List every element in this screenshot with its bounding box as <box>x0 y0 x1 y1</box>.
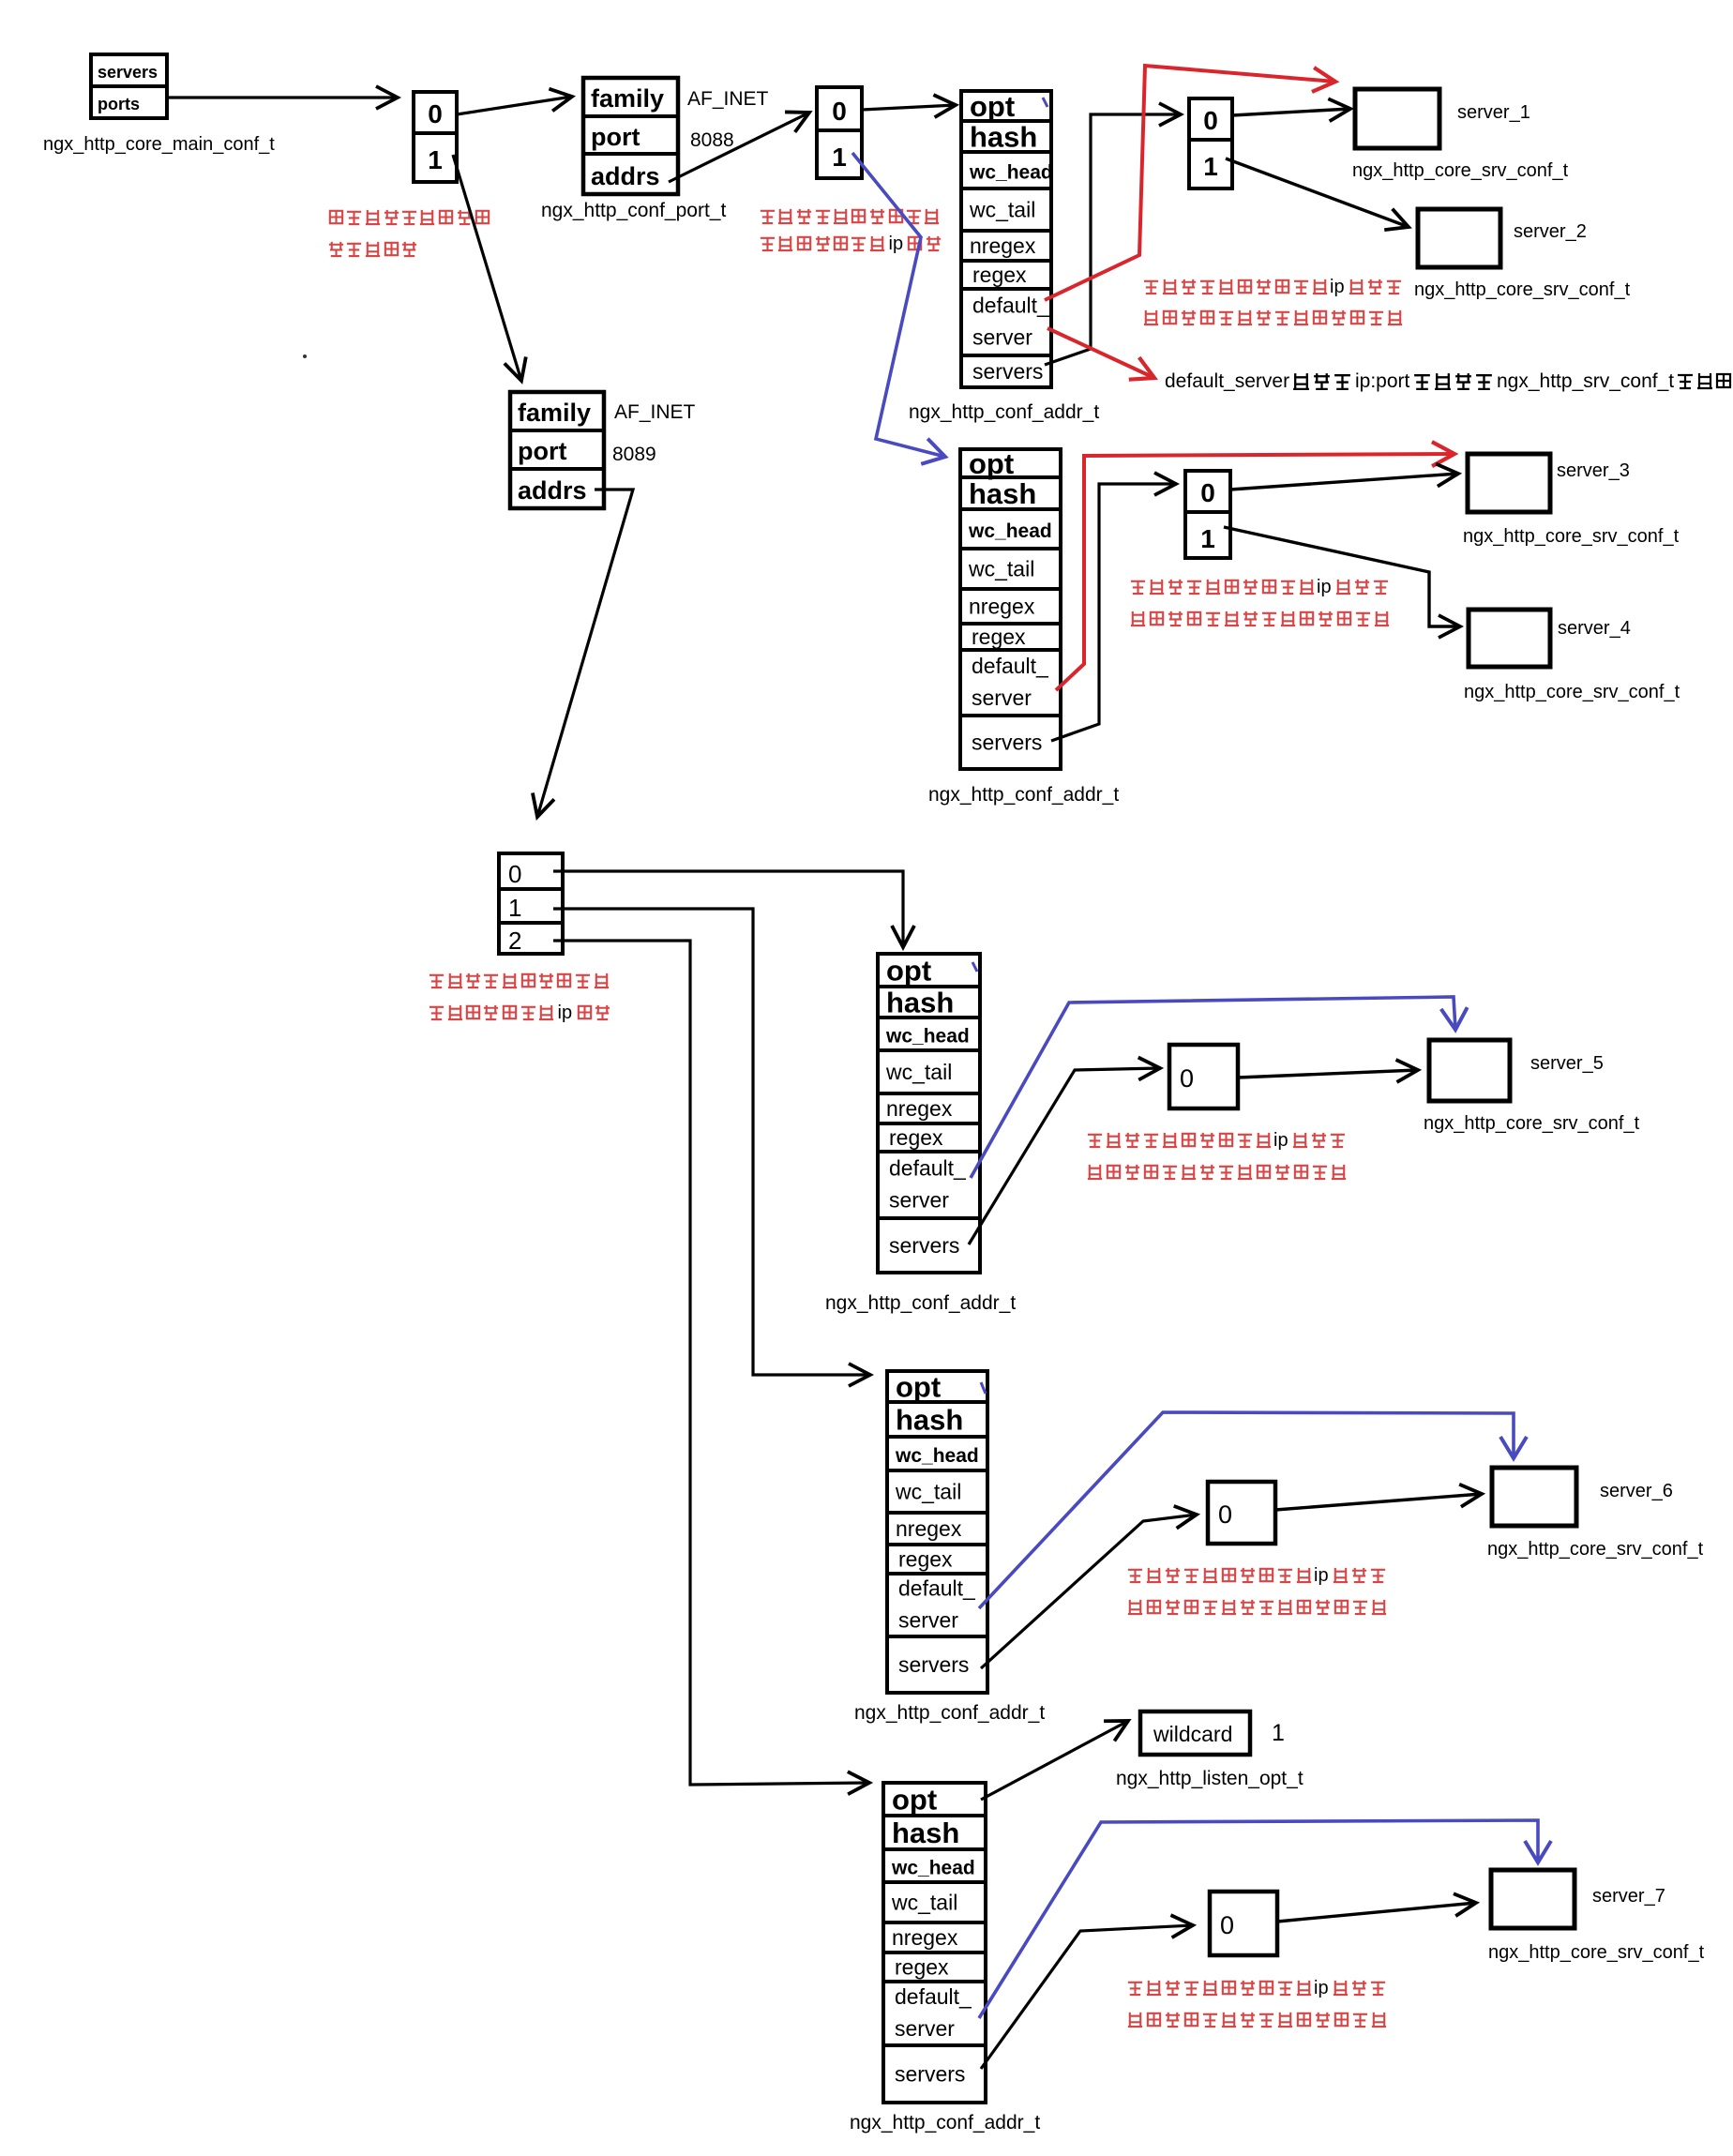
svg-text:regex: regex <box>889 1125 943 1150</box>
svg-text:hash: hash <box>970 121 1037 154</box>
svg-text:1: 1 <box>832 143 847 172</box>
svg-text:ip: ip <box>1317 577 1332 597</box>
svg-text:servers: servers <box>889 1233 959 1258</box>
array box servers[0] (server_5) <box>1169 1045 1238 1108</box>
svg-text:ngx_http_core_srv_conf_t: ngx_http_core_srv_conf_t <box>1414 279 1631 300</box>
array box servers[0..1] (server_1/server_2) <box>1189 98 1232 188</box>
wire arrow: addrs[2] -> addr-5 box <box>553 941 869 1785</box>
stray blue tick on opt row <box>1043 98 1047 107</box>
svg-text:wc_tail: wc_tail <box>968 557 1034 581</box>
wire arrow: servers(addr-2) -> servers array <box>1051 484 1176 741</box>
svg-text:ngx_http_conf_addr_t: ngx_http_conf_addr_t <box>854 1702 1045 1724</box>
svg-text:ngx_http_srv_conf_t: ngx_http_srv_conf_t <box>1497 370 1674 392</box>
wire arrow: servers(addr-4) -> single-element array <box>981 1515 1197 1668</box>
svg-text:2: 2 <box>508 927 521 955</box>
svg-text:family: family <box>518 399 591 427</box>
blue wire arrow: default_server(addr-3) -> server_5 <box>971 997 1455 1178</box>
box server_3 (ngx_http_core_srv_conf_t) <box>1463 454 1680 547</box>
wire arrow: servers[0] -> server_1 <box>1232 109 1350 115</box>
svg-text:server_4: server_4 <box>1558 618 1631 639</box>
svg-text:default_: default_ <box>972 294 1050 318</box>
svg-text:server_3: server_3 <box>1557 460 1630 481</box>
box server_5 (ngx_http_core_srv_conf_t) <box>1424 1040 1640 1134</box>
svg-text:8088: 8088 <box>690 129 734 151</box>
svg-text:ip: ip <box>1273 1130 1288 1151</box>
wire arrow: servers[0] -> server_5 <box>1238 1070 1418 1078</box>
svg-text:ports: ports <box>98 95 140 113</box>
blue wire arrow: default_server(addr-5) -> server_7 <box>979 1820 1538 2018</box>
svg-text:ngx_http_core_srv_conf_t: ngx_http_core_srv_conf_t <box>1424 1113 1640 1134</box>
wire arrow: opt(addr-5) -> wildcard box <box>981 1721 1128 1800</box>
svg-text:server_2: server_2 <box>1514 221 1587 242</box>
wire arrow: addrs[1] -> addr-4 box <box>553 909 870 1375</box>
red note: this array stores all ip addresses of one port <box>761 209 941 254</box>
svg-text:opt: opt <box>886 955 931 988</box>
red note: same ip and port virtual hosts (addr-3) <box>1088 1130 1346 1179</box>
wire arrow: ports[1] -> ngx_http_conf_port_t (8089) <box>453 155 521 381</box>
svg-text:server: server <box>972 686 1032 710</box>
svg-text:wc_head: wc_head <box>891 1858 975 1879</box>
svg-text:0: 0 <box>1200 478 1215 507</box>
svg-text:ip: ip <box>889 234 904 254</box>
wire arrow: servers(addr-5) -> single-element array <box>981 1925 1193 2069</box>
stray blue tick on opt row (addr-3) <box>972 962 977 972</box>
red note: this array stores all ip addresses of one port (8089) <box>429 973 610 1023</box>
svg-text:addrs: addrs <box>518 476 587 505</box>
struct box addr-4 (8089/addr1) (ngx_http_conf_addr_t) <box>887 1371 987 1694</box>
svg-text:wc_tail: wc_tail <box>969 198 1035 222</box>
red wire arrow: default_server(addr-1) -> note text <box>1047 328 1154 378</box>
svg-text:ngx_http_conf_addr_t: ngx_http_conf_addr_t <box>928 784 1119 806</box>
svg-text:wc_head: wc_head <box>969 162 1053 184</box>
stray blue tick on opt row (addr-4) <box>981 1382 986 1394</box>
svg-text:server: server <box>972 325 1032 350</box>
svg-text:ip:port: ip:port <box>1355 370 1410 392</box>
svg-text:ngx_http_conf_addr_t: ngx_http_conf_addr_t <box>850 2112 1040 2133</box>
svg-text:nregex: nregex <box>892 1925 958 1950</box>
red wire arrow: default_server(addr-1) -> server_1 <box>1045 66 1335 300</box>
struct box addr-3 (8089/addr0) (ngx_http_conf_addr_t) <box>878 954 980 1273</box>
svg-text:nregex: nregex <box>896 1516 962 1541</box>
svg-text:ngx_http_conf_port_t: ngx_http_conf_port_t <box>541 200 726 221</box>
svg-text:hash: hash <box>892 1817 959 1849</box>
svg-text:wildcard: wildcard <box>1153 1722 1232 1746</box>
svg-text:8089: 8089 <box>612 444 656 465</box>
svg-text:AF_INET: AF_INET <box>614 401 696 423</box>
struct box ngx_http_core_main_conf_t (servers/ports) <box>91 54 167 118</box>
svg-text:port: port <box>591 123 640 151</box>
svg-text:AF_INET: AF_INET <box>687 88 769 110</box>
array box addrs[0..1] of port 8088 <box>817 87 862 178</box>
box server_7 (ngx_http_core_srv_conf_t) <box>1488 1870 1705 1963</box>
svg-text:wc_tail: wc_tail <box>895 1480 961 1504</box>
svg-text:default_server: default_server <box>1165 370 1289 392</box>
svg-text:nregex: nregex <box>969 595 1035 619</box>
svg-text:1: 1 <box>1203 152 1218 181</box>
svg-text:ngx_http_core_main_conf_t: ngx_http_core_main_conf_t <box>43 134 275 155</box>
box server_6 (ngx_http_core_srv_conf_t) <box>1487 1468 1704 1560</box>
blue wire arrow: addrs[1] -> second ngx_http_conf_addr_t <box>852 153 945 457</box>
svg-text:wc_tail: wc_tail <box>885 1060 952 1084</box>
box server_1 (ngx_http_core_srv_conf_t) <box>1352 89 1569 181</box>
svg-text:server: server <box>898 1608 958 1633</box>
svg-text:default_: default_ <box>889 1156 967 1181</box>
svg-text:regex: regex <box>972 625 1026 649</box>
svg-text:0: 0 <box>1180 1064 1194 1093</box>
svg-text:opt: opt <box>896 1371 941 1404</box>
array box ports[0..1] <box>414 92 457 182</box>
array box servers[0] (server_7) <box>1210 1892 1277 1955</box>
svg-text:addrs: addrs <box>591 162 660 190</box>
array box servers[0] (server_6) <box>1208 1482 1275 1544</box>
svg-text:port: port <box>518 437 566 465</box>
svg-text:regex: regex <box>972 263 1027 287</box>
svg-text:1: 1 <box>1272 1720 1285 1746</box>
wire arrow: addrs[0] -> first ngx_http_conf_addr_t <box>862 105 956 110</box>
svg-text:hash: hash <box>969 477 1036 510</box>
wire arrow: servers(addr-3) -> single-element array <box>969 1068 1160 1244</box>
svg-text:opt: opt <box>892 1784 937 1817</box>
red note: same ip同port virtual hosts (addr-2) <box>1131 577 1389 626</box>
wire arrow: servers[0] -> server_6 <box>1275 1494 1482 1510</box>
svg-text:ngx_http_core_srv_conf_t: ngx_http_core_srv_conf_t <box>1463 526 1680 547</box>
svg-text:default_: default_ <box>895 1984 972 2009</box>
svg-text:servers: servers <box>98 63 158 82</box>
wire arrow: addrs(8088) -> addrs array <box>669 113 809 182</box>
struct box addr-1 (8088/addr0) (ngx_http_conf_addr_t) <box>961 90 1053 387</box>
svg-text:servers: servers <box>898 1652 969 1677</box>
svg-text:ngx_http_core_srv_conf_t: ngx_http_core_srv_conf_t <box>1488 1942 1705 1963</box>
svg-text:server_5: server_5 <box>1530 1053 1604 1074</box>
svg-text:server_6: server_6 <box>1600 1481 1673 1501</box>
struct box addr-5 (8089/addr2) (ngx_http_conf_addr_t) <box>883 1783 986 2103</box>
box server_2 (ngx_http_core_srv_conf_t) <box>1414 209 1631 300</box>
box server_4 (ngx_http_core_srv_conf_t) <box>1464 610 1680 702</box>
svg-text:ngx_http_conf_addr_t: ngx_http_conf_addr_t <box>825 1292 1016 1314</box>
svg-text:0: 0 <box>1218 1500 1232 1529</box>
svg-text:server: server <box>889 1188 949 1213</box>
svg-text:ngx_http_listen_opt_t: ngx_http_listen_opt_t <box>1116 1768 1304 1789</box>
box ngx_http_listen_opt_t (wildcard) <box>1140 1711 1250 1755</box>
svg-text:ngx_http_core_srv_conf_t: ngx_http_core_srv_conf_t <box>1352 160 1569 181</box>
svg-text:wc_tail: wc_tail <box>891 1891 957 1915</box>
svg-text:ngx_http_conf_addr_t: ngx_http_conf_addr_t <box>909 401 1099 423</box>
svg-text:ngx_http_core_srv_conf_t: ngx_http_core_srv_conf_t <box>1487 1539 1704 1560</box>
svg-text:1: 1 <box>428 145 443 174</box>
svg-text:nregex: nregex <box>886 1096 953 1121</box>
wire arrow: addrs(8089) -> addrs array 0/1/2 <box>537 490 633 817</box>
wire arrow: servers[0] -> server_7 <box>1277 1903 1476 1922</box>
svg-text:servers: servers <box>972 731 1042 755</box>
svg-text:wc_head: wc_head <box>895 1445 979 1467</box>
svg-text:ngx_http_core_srv_conf_t: ngx_http_core_srv_conf_t <box>1464 682 1680 702</box>
wire arrow: servers[1] -> server_2 <box>1226 158 1409 227</box>
svg-text:server_1: server_1 <box>1457 102 1530 123</box>
svg-text:1: 1 <box>508 894 521 922</box>
red wire arrow: default_server(addr-2) -> server_3 <box>1056 454 1454 690</box>
svg-text:servers: servers <box>895 2062 965 2087</box>
blue wire arrow: default_server(addr-4) -> server_6 <box>979 1412 1514 1608</box>
svg-text:wc_head: wc_head <box>885 1026 970 1048</box>
struct box ngx_http_conf_port_t : family/port/addrs (8088) <box>583 78 678 194</box>
svg-text:regex: regex <box>898 1547 953 1572</box>
red note: this array stores all virtual hosts of same ip:port (top) <box>1144 277 1402 324</box>
svg-text:hash: hash <box>896 1404 963 1437</box>
red note: this array stores all different ports <box>329 210 489 256</box>
svg-text:default_: default_ <box>972 654 1049 678</box>
svg-text:ip: ip <box>1314 1978 1329 1998</box>
svg-text:family: family <box>591 84 664 113</box>
svg-text:ip: ip <box>1314 1565 1329 1586</box>
svg-text:default_: default_ <box>898 1576 976 1601</box>
svg-text:hash: hash <box>886 987 954 1019</box>
svg-text:0: 0 <box>1203 106 1218 135</box>
svg-text:nregex: nregex <box>970 234 1036 258</box>
svg-text:servers: servers <box>972 359 1043 384</box>
struct box ngx_http_conf_port_t : family/port/addrs (8089) <box>510 392 604 508</box>
wire arrow: addrs[0] -> addr-3 box <box>553 871 903 947</box>
svg-text:server: server <box>895 2016 955 2041</box>
svg-text:opt: opt <box>970 90 1015 123</box>
note: default_server is the first ngx_http_srv_conf_t of same ip:port <box>1165 370 1730 392</box>
svg-text:0: 0 <box>508 860 521 888</box>
svg-text:wc_head: wc_head <box>968 520 1052 542</box>
wire arrow: ports -> ports array <box>167 96 398 98</box>
svg-text:ip: ip <box>1330 277 1345 297</box>
wire arrow: servers[0] -> server_3 <box>1230 474 1458 490</box>
tiny stray dot <box>303 354 307 358</box>
svg-text:server_7: server_7 <box>1592 1886 1665 1907</box>
array box addrs[0..2] of port 8089 <box>499 853 563 955</box>
svg-text:0: 0 <box>832 97 847 126</box>
red note: same ip and port virtual hosts (addr-5) <box>1128 1978 1386 2027</box>
wire arrow: servers[1] -> server_4 <box>1224 527 1460 626</box>
svg-text:0: 0 <box>428 99 443 128</box>
svg-text:0: 0 <box>1220 1911 1234 1939</box>
struct box addr-2 (8088/addr1) (ngx_http_conf_addr_t) <box>960 447 1061 769</box>
wire arrow: servers(addr-1) -> servers array 0/1 <box>1045 114 1181 365</box>
svg-text:ip: ip <box>558 1003 573 1023</box>
svg-text:1: 1 <box>1200 524 1215 553</box>
svg-text:opt: opt <box>969 447 1014 480</box>
array box servers[0..1] (server_3/server_4) <box>1185 471 1230 558</box>
red note: same ip and port virtual hosts (addr-4) <box>1128 1565 1386 1614</box>
wire arrow: ports[0] -> ngx_http_conf_port_t (8088) <box>457 97 572 114</box>
svg-text:regex: regex <box>895 1955 949 1980</box>
